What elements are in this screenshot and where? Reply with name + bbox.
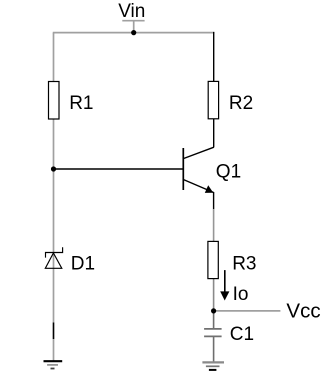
- svg-text:Vin: Vin: [118, 1, 145, 22]
- svg-text:D1: D1: [71, 253, 95, 274]
- svg-text:R2: R2: [229, 93, 253, 114]
- svg-text:R3: R3: [232, 254, 256, 275]
- svg-text:Q1: Q1: [216, 161, 241, 182]
- svg-text:R1: R1: [69, 93, 93, 114]
- svg-text:Vcc: Vcc: [286, 299, 320, 322]
- svg-text:C1: C1: [230, 324, 254, 345]
- svg-text:Io: Io: [233, 284, 249, 305]
